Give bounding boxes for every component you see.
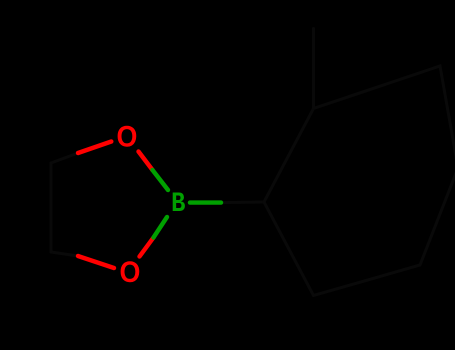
svg-text:O: O [117,120,138,154]
svg-text:B: B [171,187,186,219]
svg-text:O: O [120,256,141,290]
